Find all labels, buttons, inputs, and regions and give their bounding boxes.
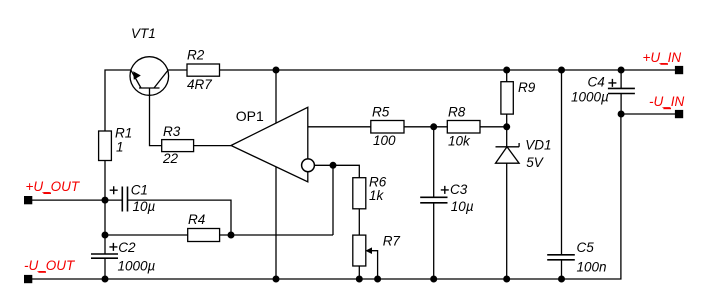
svg-text:C2: C2 <box>118 240 136 255</box>
svg-text:+U_IN: +U_IN <box>643 50 682 65</box>
label C5 <box>577 240 595 255</box>
junction bottom rail at VD1 <box>503 276 510 283</box>
junction bottom rail at spine <box>102 276 109 283</box>
terminal -U_IN <box>675 110 683 118</box>
resistor R9 <box>501 70 513 127</box>
wire node to R6 top <box>333 165 359 177</box>
svg-text:4R7: 4R7 <box>187 77 212 92</box>
label R1 <box>115 125 132 140</box>
resistor R5 <box>371 121 404 134</box>
resistor R2 <box>187 64 220 76</box>
svg-text:5V: 5V <box>526 155 545 170</box>
transistor VT1 <box>130 57 169 96</box>
junction top rail at R9 <box>503 67 510 74</box>
junction bottom rail at R7 wiper <box>374 276 381 283</box>
wire op-amp non-inverting input to R5 <box>308 126 371 128</box>
terminal +U_IN <box>675 66 683 74</box>
junction R8/R9/VD1 node <box>503 123 510 130</box>
label R6 value 1k <box>369 188 385 203</box>
wire R5 to R8 <box>404 126 447 128</box>
label R7 <box>383 234 401 249</box>
label +U_OUT <box>26 179 81 194</box>
label VT1 <box>131 26 156 41</box>
label C1 <box>131 183 148 198</box>
op-amp OP1 <box>231 107 314 182</box>
wire op-amp V- power pin <box>275 167 277 279</box>
wire top rail emitter segment <box>105 70 131 131</box>
wire R4 right to inverting branch <box>220 234 333 236</box>
svg-text:10µ: 10µ <box>451 199 474 214</box>
label C2 plus <box>109 243 117 251</box>
capacitor C3 <box>420 127 447 279</box>
label R1 value 1 <box>116 139 124 154</box>
label R8 <box>448 105 466 120</box>
label R2 value 4R7 <box>187 77 212 92</box>
svg-text:R2: R2 <box>187 47 205 62</box>
wire R4 left to spine <box>105 234 188 236</box>
label OP1 <box>236 108 264 124</box>
svg-text:VD1: VD1 <box>525 137 551 152</box>
label C3 value 10µ <box>451 199 474 214</box>
svg-text:+U_OUT: +U_OUT <box>26 179 81 194</box>
resistor R3 <box>162 140 194 152</box>
label R9 <box>518 80 536 95</box>
svg-text:-U_OUT: -U_OUT <box>24 258 76 273</box>
label C3 plus <box>441 186 449 194</box>
junction bottom rail at R7 <box>356 276 363 283</box>
label R8 value 10k <box>448 134 471 149</box>
capacitor C5 <box>547 70 575 279</box>
svg-text:R3: R3 <box>163 124 181 139</box>
resistor R6 <box>353 178 366 209</box>
svg-text:C1: C1 <box>131 183 148 198</box>
junction +U_OUT node <box>102 197 109 204</box>
svg-text:10k: 10k <box>448 134 471 149</box>
label R3 value 22 <box>162 151 179 166</box>
wire top rail R2 to +U_IN terminal <box>220 69 676 71</box>
svg-text:VT1: VT1 <box>131 26 156 41</box>
wire left spine R1 to C2 top <box>104 161 106 254</box>
svg-text:100n: 100n <box>577 259 607 274</box>
label +U_IN <box>643 50 682 65</box>
label VD1 <box>525 137 551 152</box>
junction top rail at C5 <box>558 67 565 74</box>
wire R8 to VD1 node <box>480 126 507 128</box>
svg-text:1: 1 <box>116 139 124 154</box>
label R3 <box>163 124 181 139</box>
terminal +U_OUT <box>24 196 32 204</box>
label R5 <box>372 105 390 120</box>
junction bottom rail at C3 <box>430 276 437 283</box>
wire base lead VT1 to R3 <box>150 88 162 146</box>
junction R4 left node <box>102 232 109 239</box>
svg-text:R8: R8 <box>448 105 466 120</box>
wire op-amp V+ power pin <box>275 70 277 123</box>
svg-text:R4: R4 <box>188 212 205 227</box>
svg-text:100: 100 <box>373 133 396 148</box>
label C1 plus <box>110 186 118 194</box>
resistor R4 <box>188 229 220 242</box>
capacitor C1 <box>105 187 231 236</box>
label C4 plus <box>608 79 616 87</box>
wire op-amp inverting bubble to node <box>314 164 333 166</box>
svg-text:C3: C3 <box>450 182 468 197</box>
junction top rail at C4 <box>618 67 625 74</box>
capacitor C4 <box>608 70 635 114</box>
wire left spine C2 bottom to rail <box>104 258 106 279</box>
label R5 value 100 <box>373 133 396 148</box>
wire +U_OUT terminal to spine <box>32 199 105 201</box>
label C2 value 1000µ <box>118 258 156 273</box>
label C3 <box>450 182 468 197</box>
label -U_IN <box>649 94 685 109</box>
capacitor C2 <box>91 254 118 258</box>
svg-text:1000µ: 1000µ <box>118 258 156 273</box>
zener diode VD1 <box>496 127 520 279</box>
label C2 <box>118 240 136 255</box>
label C1 value 10µ <box>133 199 156 214</box>
junction C4/-U_IN node <box>618 111 625 118</box>
label VD1 value 5V <box>526 155 545 170</box>
label -U_OUT <box>24 258 76 273</box>
junction C1/R4 node <box>228 232 235 239</box>
label C5 value 100n <box>577 259 607 274</box>
svg-text:R9: R9 <box>518 80 536 95</box>
svg-text:10µ: 10µ <box>133 199 156 214</box>
wire inverting node down to R4 row <box>332 165 334 235</box>
label R6 <box>369 175 387 190</box>
svg-text:-U_IN: -U_IN <box>649 94 685 109</box>
junction bottom rail at C5 <box>558 276 565 283</box>
junction inverting input node <box>330 162 337 169</box>
svg-text:R1: R1 <box>115 125 132 140</box>
label C4 <box>588 74 605 89</box>
potentiometer R7 <box>353 235 378 279</box>
svg-text:R5: R5 <box>372 105 390 120</box>
svg-text:22: 22 <box>162 151 179 166</box>
svg-text:OP1: OP1 <box>236 108 264 124</box>
svg-text:R7: R7 <box>383 234 401 249</box>
svg-text:1k: 1k <box>369 188 385 203</box>
wire R3 to op-amp input apex <box>194 145 231 147</box>
junction R5/R8/C3 node <box>430 123 437 130</box>
resistor R1 <box>99 131 112 161</box>
junction bottom rail at op-amp V- <box>273 276 280 283</box>
svg-text:C5: C5 <box>577 240 595 255</box>
label C4 value 1000µ <box>571 89 609 104</box>
label R2 <box>187 47 205 62</box>
wire R6 to R7 <box>358 209 360 235</box>
junction top rail at op-amp V+ <box>273 67 280 74</box>
svg-text:1000µ: 1000µ <box>571 89 609 104</box>
wire collector to R2 <box>168 69 187 71</box>
svg-text:C4: C4 <box>588 74 605 89</box>
label R4 <box>188 212 205 227</box>
resistor R8 <box>447 121 480 134</box>
terminal -U_OUT <box>24 275 32 283</box>
wire bottom rail <box>32 115 621 280</box>
wire C4 node to -U_IN terminal <box>621 113 675 115</box>
